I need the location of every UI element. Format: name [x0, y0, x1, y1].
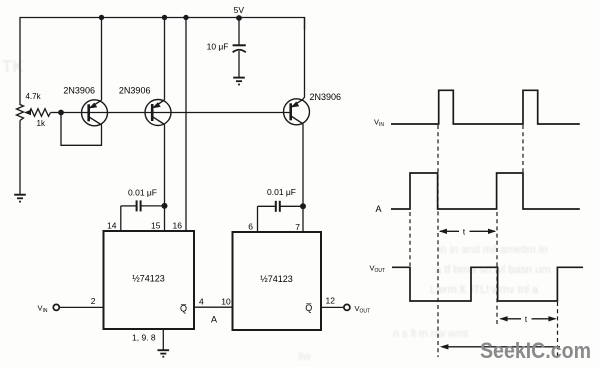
wire: pin 12 to Vout terminal — [321, 306, 344, 308]
wire: pin 4 to pin 10 (node A) — [194, 306, 233, 308]
svg-text:0.01 μF: 0.01 μF — [267, 187, 296, 197]
wire: Q1 emitter to rail — [101, 18, 103, 101]
svg-text:14: 14 — [107, 221, 117, 231]
waveform A — [391, 173, 580, 209]
transistor Q2 2N3906 — [145, 100, 171, 126]
waveform Vout — [392, 267, 583, 301]
svg-text:½74123: ½74123 — [260, 274, 293, 284]
svg-text:7: 7 — [295, 222, 300, 232]
svg-text:a tf bmw srl tvl basn um: a tf bmw srl tvl basn um — [435, 264, 551, 276]
dashed guide at Vin pulse1 (x=438) — [437, 125, 439, 357]
svg-text:1k: 1k — [37, 119, 46, 128]
wire: base bus to Q3 — [61, 112, 290, 114]
svg-text:llw: llw — [298, 351, 311, 363]
svg-text:n s ll m nw wmt: n s ll m nw wmt — [393, 328, 468, 340]
wire: C2 left leg to pin 14 — [120, 206, 122, 231]
faint page bleed-through texts (decorative) — [2, 57, 551, 363]
wiper arrow of R1 — [24, 110, 31, 115]
period arrow (bottom, points left to Vin edge) — [440, 344, 560, 349]
capacitor C1 10uF — [233, 45, 246, 52]
transistor Q3 2N3906 — [284, 99, 310, 125]
dashed guide at A rising edge (x=410) — [409, 212, 411, 266]
wire: R1 lower to ground — [19, 121, 21, 195]
wire: U1 ground pins — [162, 329, 164, 350]
ground (below R1) — [14, 195, 26, 202]
resistor R2 1k — [29, 109, 51, 117]
svg-text:4: 4 — [199, 297, 204, 307]
potentiometer R1 4.7k — [17, 105, 24, 121]
svg-text:0.01 μF: 0.01 μF — [128, 188, 157, 198]
capacitor C2 0.01uF (IC1 timing) — [121, 200, 165, 211]
svg-text:5V: 5V — [234, 5, 245, 15]
wire: C1 to ground — [238, 51, 240, 77]
IC U2 1/2 74123 — [233, 232, 322, 330]
svg-text:15: 15 — [151, 221, 161, 231]
output terminal Vout — [344, 304, 350, 310]
waveform Vin — [391, 90, 580, 124]
transistor Q1 2N3906 — [82, 100, 108, 126]
wire: R2 to node A1 — [51, 112, 62, 114]
5V supply rail — [20, 18, 305, 106]
ground (below C1) — [233, 78, 245, 85]
svg-text:6: 6 — [248, 222, 253, 232]
wire: Vin to pin 2 — [60, 306, 104, 308]
svg-text:Q̅: Q̅ — [305, 303, 312, 313]
svg-text:Lwrm ll. lTLl wmv tnl a: Lwrm ll. lTLl wmv tnl a — [430, 284, 539, 296]
ground (below U1) — [158, 350, 170, 357]
svg-text:2N3906: 2N3906 — [63, 86, 95, 96]
svg-text:A: A — [211, 315, 217, 325]
input terminal Vin — [53, 304, 59, 310]
svg-text:10: 10 — [221, 297, 231, 307]
wire: rail to C1 — [238, 18, 240, 45]
node: Q1 emitter on rail — [99, 15, 104, 20]
svg-text:4.7k: 4.7k — [26, 92, 42, 101]
wire: rail to pin 16 — [185, 18, 187, 232]
IC U1 1/2 74123 — [104, 231, 195, 329]
svg-text:TK: TK — [2, 57, 24, 76]
svg-text:2N3906: 2N3906 — [119, 86, 151, 96]
capacitor C3 0.01uF (IC2 timing) — [258, 201, 304, 212]
svg-text:in in and mil ametim ln: in in and mil ametim ln — [438, 244, 547, 256]
svg-text:12: 12 — [326, 296, 336, 306]
wire: Q3 collector down to C3 node / pin 7 — [302, 124, 304, 232]
svg-text:SeekIC.com: SeekIC.com — [480, 338, 591, 363]
svg-text:A: A — [376, 204, 382, 214]
svg-text:10 μF: 10 μF — [207, 42, 229, 52]
node: base junction — [58, 110, 64, 116]
svg-text:Q̅: Q̅ — [180, 304, 187, 314]
svg-text:2: 2 — [91, 296, 96, 306]
svg-text:16: 16 — [173, 221, 183, 231]
dashed guide at A pulse2 rise (x=497) — [496, 212, 498, 325]
node: Q2 emitter on rail — [162, 15, 167, 20]
wire: C3 left leg to pin 6 — [257, 206, 259, 232]
wire: Q2 collector down to C2 node / pin 15 — [164, 125, 166, 232]
node: pin16 branch on rail — [183, 15, 188, 20]
dashed guide at Vout rise2 (x=557.5) — [557, 302, 559, 356]
timing arrow t (second) — [499, 316, 556, 321]
wire: Q2 emitter to rail — [164, 18, 166, 100]
svg-text:2N3906: 2N3906 — [310, 92, 342, 102]
dashed guide at Vin pulse2 (x=523) — [522, 125, 524, 172]
wire: Q1 collector-base feedback loop — [61, 113, 102, 146]
svg-text:½74123: ½74123 — [132, 274, 165, 284]
svg-text:1, 9. 8: 1, 9. 8 — [132, 333, 156, 343]
timing arrow t (first) — [439, 229, 496, 234]
node: C1 branch on rail (5V) — [236, 15, 242, 21]
node: C3 / pin7 junction — [300, 203, 306, 209]
node: C2 / pin15 junction — [162, 203, 168, 209]
wire: Q3 emitter to rail corner — [303, 18, 305, 100]
